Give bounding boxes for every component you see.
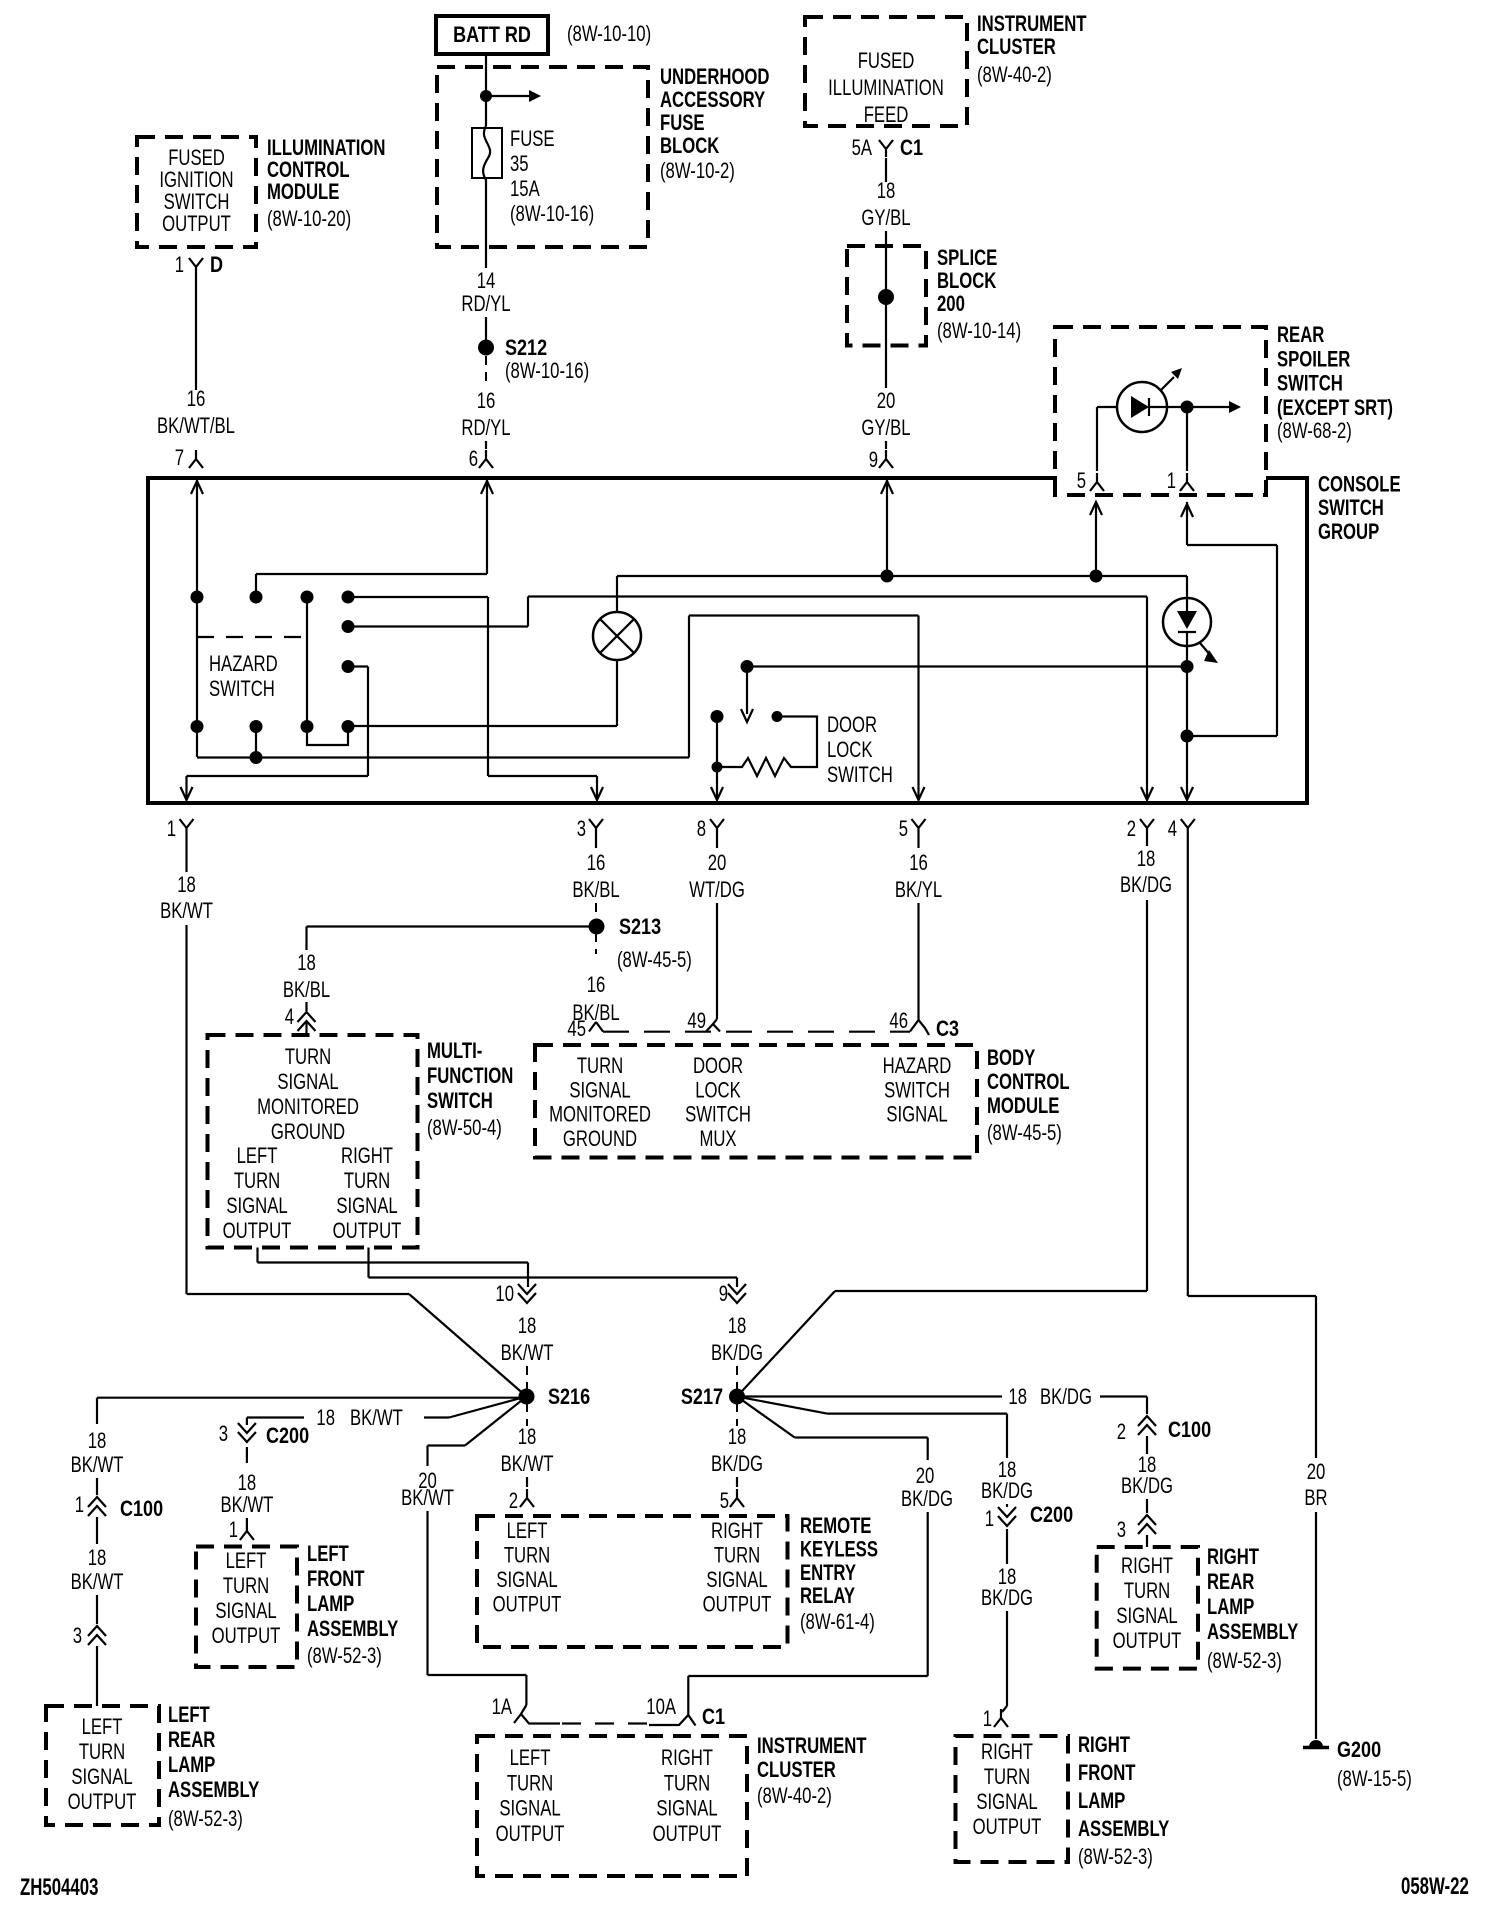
svg-text:BK/BL: BK/BL bbox=[283, 978, 330, 1003]
svg-text:16: 16 bbox=[477, 389, 496, 414]
svg-text:TURN: TURN bbox=[507, 1771, 553, 1796]
svg-text:20: 20 bbox=[916, 1464, 935, 1489]
svg-text:BK/WT/BL: BK/WT/BL bbox=[157, 414, 235, 439]
svg-text:ASSEMBLY: ASSEMBLY bbox=[307, 1617, 398, 1642]
svg-text:OUTPUT: OUTPUT bbox=[68, 1790, 137, 1815]
svg-text:18: 18 bbox=[518, 1425, 537, 1450]
svg-text:GY/BL: GY/BL bbox=[861, 206, 910, 231]
svg-text:18: 18 bbox=[88, 1429, 107, 1454]
svg-text:LOCK: LOCK bbox=[827, 738, 872, 763]
svg-text:GROUND: GROUND bbox=[271, 1120, 345, 1145]
svg-text:DOOR: DOOR bbox=[693, 1054, 743, 1079]
svg-text:4: 4 bbox=[285, 1005, 294, 1030]
svg-text:KEYLESS: KEYLESS bbox=[800, 1537, 878, 1562]
svg-text:(8W-10-10): (8W-10-10) bbox=[567, 22, 651, 47]
svg-text:BLOCK: BLOCK bbox=[937, 269, 996, 294]
svg-text:15A: 15A bbox=[510, 177, 540, 202]
svg-text:SWITCH: SWITCH bbox=[827, 763, 893, 788]
svg-text:BK/WT: BK/WT bbox=[401, 1486, 454, 1511]
svg-text:BK/DG: BK/DG bbox=[901, 1487, 953, 1512]
svg-text:2: 2 bbox=[1127, 817, 1136, 842]
svg-text:FRONT: FRONT bbox=[1078, 1761, 1136, 1786]
svg-text:TURN: TURN bbox=[285, 1045, 331, 1070]
svg-text:MULTI-: MULTI- bbox=[427, 1039, 482, 1064]
svg-text:18: 18 bbox=[297, 951, 316, 976]
svg-text:1: 1 bbox=[985, 1507, 994, 1532]
svg-text:5A: 5A bbox=[852, 136, 872, 161]
svg-text:TURN: TURN bbox=[577, 1054, 623, 1079]
svg-text:9: 9 bbox=[719, 1282, 728, 1307]
svg-text:LAMP: LAMP bbox=[168, 1753, 215, 1778]
svg-text:ACCESSORY: ACCESSORY bbox=[660, 88, 765, 113]
svg-text:OUTPUT: OUTPUT bbox=[223, 1219, 292, 1244]
svg-text:SIGNAL: SIGNAL bbox=[886, 1102, 947, 1127]
svg-text:RD/YL: RD/YL bbox=[461, 292, 510, 317]
svg-text:ASSEMBLY: ASSEMBLY bbox=[168, 1778, 259, 1803]
svg-text:LEFT: LEFT bbox=[507, 1519, 548, 1544]
svg-text:(8W-15-5): (8W-15-5) bbox=[1337, 1767, 1412, 1792]
svg-text:REAR: REAR bbox=[1277, 323, 1324, 348]
svg-text:SIGNAL: SIGNAL bbox=[976, 1790, 1037, 1815]
svg-text:SWITCH: SWITCH bbox=[685, 1102, 751, 1127]
svg-text:18: 18 bbox=[877, 179, 896, 204]
svg-text:CLUSTER: CLUSTER bbox=[757, 1758, 836, 1783]
svg-text:9: 9 bbox=[869, 448, 878, 473]
svg-text:SIGNAL: SIGNAL bbox=[71, 1765, 132, 1790]
svg-text:OUTPUT: OUTPUT bbox=[1113, 1629, 1182, 1654]
svg-text:REMOTE: REMOTE bbox=[800, 1514, 871, 1539]
svg-text:BK/WT: BK/WT bbox=[71, 1453, 124, 1478]
svg-text:OUTPUT: OUTPUT bbox=[493, 1592, 562, 1617]
svg-text:BR: BR bbox=[1304, 1486, 1327, 1511]
svg-text:18: 18 bbox=[177, 873, 196, 898]
svg-text:C1: C1 bbox=[900, 136, 923, 160]
svg-text:20: 20 bbox=[1307, 1460, 1326, 1485]
svg-text:SIGNAL: SIGNAL bbox=[277, 1070, 338, 1095]
svg-text:FEED: FEED bbox=[864, 103, 909, 128]
svg-text:OUTPUT: OUTPUT bbox=[162, 212, 231, 237]
svg-text:7: 7 bbox=[175, 446, 184, 471]
svg-text:16: 16 bbox=[587, 851, 606, 876]
svg-text:G200: G200 bbox=[1337, 1738, 1381, 1762]
svg-text:TURN: TURN bbox=[664, 1771, 710, 1796]
svg-text:INSTRUMENT: INSTRUMENT bbox=[977, 12, 1087, 37]
svg-text:HAZARD: HAZARD bbox=[209, 652, 278, 677]
svg-text:HAZARD: HAZARD bbox=[883, 1054, 952, 1079]
svg-text:BK/DG: BK/DG bbox=[711, 1341, 763, 1366]
svg-text:5: 5 bbox=[720, 1489, 729, 1514]
svg-text:MONITORED: MONITORED bbox=[549, 1102, 651, 1127]
svg-text:3: 3 bbox=[577, 817, 586, 842]
svg-text:BK/DG: BK/DG bbox=[1040, 1385, 1092, 1410]
svg-text:16: 16 bbox=[187, 387, 206, 412]
svg-text:1: 1 bbox=[229, 1518, 238, 1543]
svg-text:LEFT: LEFT bbox=[510, 1746, 551, 1771]
svg-text:(8W-10-16): (8W-10-16) bbox=[505, 359, 589, 384]
svg-text:TURN: TURN bbox=[223, 1574, 269, 1599]
svg-text:GROUP: GROUP bbox=[1318, 520, 1379, 545]
svg-text:SIGNAL: SIGNAL bbox=[656, 1796, 717, 1821]
svg-text:FUSE: FUSE bbox=[510, 127, 555, 152]
svg-text:TURN: TURN bbox=[714, 1543, 760, 1568]
svg-text:18: 18 bbox=[728, 1314, 747, 1339]
svg-text:RIGHT: RIGHT bbox=[661, 1746, 713, 1771]
svg-text:LAMP: LAMP bbox=[307, 1592, 354, 1617]
svg-text:10A: 10A bbox=[646, 1695, 676, 1720]
svg-text:REAR: REAR bbox=[1207, 1570, 1254, 1595]
svg-text:WT/DG: WT/DG bbox=[689, 878, 745, 903]
svg-text:18: 18 bbox=[728, 1425, 747, 1450]
svg-text:ASSEMBLY: ASSEMBLY bbox=[1207, 1620, 1298, 1645]
svg-text:RIGHT: RIGHT bbox=[1078, 1733, 1130, 1758]
svg-text:OUTPUT: OUTPUT bbox=[653, 1822, 722, 1847]
svg-text:TURN: TURN bbox=[344, 1169, 390, 1194]
svg-text:LAMP: LAMP bbox=[1078, 1789, 1125, 1814]
svg-text:OUTPUT: OUTPUT bbox=[212, 1624, 281, 1649]
svg-text:OUTPUT: OUTPUT bbox=[496, 1822, 565, 1847]
svg-text:C200: C200 bbox=[1030, 1503, 1073, 1527]
svg-text:14: 14 bbox=[477, 269, 496, 294]
svg-text:1: 1 bbox=[175, 253, 184, 278]
svg-text:C1: C1 bbox=[702, 1705, 725, 1729]
svg-text:RIGHT: RIGHT bbox=[711, 1519, 763, 1544]
svg-text:(8W-10-20): (8W-10-20) bbox=[267, 207, 351, 232]
svg-text:16: 16 bbox=[909, 851, 928, 876]
svg-text:3: 3 bbox=[73, 1624, 82, 1649]
svg-text:SWITCH: SWITCH bbox=[1318, 496, 1384, 521]
svg-text:2: 2 bbox=[1117, 1420, 1126, 1445]
svg-text:(8W-40-2): (8W-40-2) bbox=[757, 1784, 832, 1809]
svg-text:(8W-40-2): (8W-40-2) bbox=[977, 63, 1052, 88]
svg-text:BODY: BODY bbox=[987, 1046, 1035, 1071]
svg-text:LEFT: LEFT bbox=[226, 1549, 267, 1574]
svg-text:FUSE: FUSE bbox=[660, 111, 705, 136]
svg-text:20: 20 bbox=[877, 389, 896, 414]
svg-text:35: 35 bbox=[510, 152, 529, 177]
svg-text:BK/DG: BK/DG bbox=[711, 1452, 763, 1477]
svg-text:5: 5 bbox=[899, 817, 908, 842]
svg-text:UNDERHOOD: UNDERHOOD bbox=[660, 65, 769, 90]
svg-text:LAMP: LAMP bbox=[1207, 1595, 1254, 1620]
svg-text:OUTPUT: OUTPUT bbox=[973, 1815, 1042, 1840]
svg-text:SIGNAL: SIGNAL bbox=[336, 1194, 397, 1219]
svg-text:(8W-10-16): (8W-10-16) bbox=[510, 202, 594, 227]
svg-text:FUNCTION: FUNCTION bbox=[427, 1064, 513, 1089]
svg-text:6: 6 bbox=[469, 447, 478, 472]
svg-text:CONSOLE: CONSOLE bbox=[1318, 472, 1401, 497]
svg-text:8: 8 bbox=[697, 817, 706, 842]
svg-text:TURN: TURN bbox=[234, 1169, 280, 1194]
svg-text:GY/BL: GY/BL bbox=[861, 416, 910, 441]
svg-text:(8W-52-3): (8W-52-3) bbox=[168, 1807, 243, 1832]
svg-text:REAR: REAR bbox=[168, 1728, 215, 1753]
svg-text:45: 45 bbox=[567, 1017, 586, 1042]
svg-text:ENTRY: ENTRY bbox=[800, 1561, 856, 1586]
svg-text:SWITCH: SWITCH bbox=[427, 1089, 493, 1114]
svg-text:MUX: MUX bbox=[699, 1127, 736, 1152]
svg-text:C100: C100 bbox=[1168, 1418, 1211, 1442]
svg-text:49: 49 bbox=[687, 1009, 706, 1034]
svg-text:GROUND: GROUND bbox=[563, 1127, 637, 1152]
svg-text:TURN: TURN bbox=[504, 1543, 550, 1568]
svg-text:OUTPUT: OUTPUT bbox=[703, 1592, 772, 1617]
svg-text:TURN: TURN bbox=[79, 1740, 125, 1765]
svg-text:OUTPUT: OUTPUT bbox=[333, 1219, 402, 1244]
svg-text:18: 18 bbox=[1008, 1385, 1027, 1410]
svg-text:LEFT: LEFT bbox=[168, 1703, 210, 1728]
svg-text:18: 18 bbox=[518, 1314, 537, 1339]
svg-text:BK/WT: BK/WT bbox=[220, 1493, 273, 1518]
svg-text:(EXCEPT SRT): (EXCEPT SRT) bbox=[1277, 396, 1393, 421]
svg-text:(8W-10-14): (8W-10-14) bbox=[937, 319, 1021, 344]
svg-text:10: 10 bbox=[495, 1282, 514, 1307]
svg-text:5: 5 bbox=[1077, 469, 1086, 494]
svg-text:SIGNAL: SIGNAL bbox=[569, 1078, 630, 1103]
svg-text:SIGNAL: SIGNAL bbox=[226, 1194, 287, 1219]
svg-text:4: 4 bbox=[1168, 817, 1177, 842]
svg-text:3: 3 bbox=[219, 1422, 228, 1447]
svg-text:SIGNAL: SIGNAL bbox=[499, 1796, 560, 1821]
svg-text:S213: S213 bbox=[619, 915, 661, 939]
svg-text:RIGHT: RIGHT bbox=[1207, 1545, 1259, 1570]
svg-text:3: 3 bbox=[1117, 1518, 1126, 1543]
svg-text:S216: S216 bbox=[548, 1385, 590, 1409]
svg-text:(8W-52-3): (8W-52-3) bbox=[1207, 1649, 1282, 1674]
svg-text:LOCK: LOCK bbox=[695, 1078, 740, 1103]
svg-text:MODULE: MODULE bbox=[987, 1094, 1059, 1119]
svg-text:ASSEMBLY: ASSEMBLY bbox=[1078, 1817, 1169, 1842]
svg-text:SWITCH: SWITCH bbox=[209, 677, 275, 702]
svg-text:MODULE: MODULE bbox=[267, 180, 339, 205]
svg-text:1: 1 bbox=[1167, 469, 1176, 494]
svg-text:LEFT: LEFT bbox=[82, 1715, 123, 1740]
svg-text:46: 46 bbox=[889, 1009, 908, 1034]
svg-text:MONITORED: MONITORED bbox=[257, 1095, 359, 1120]
svg-text:18: 18 bbox=[316, 1406, 335, 1431]
svg-text:058W-22: 058W-22 bbox=[1401, 1873, 1469, 1900]
svg-text:BATT RD: BATT RD bbox=[453, 23, 531, 47]
svg-text:BK/DG: BK/DG bbox=[981, 1586, 1033, 1611]
svg-text:1A: 1A bbox=[492, 1695, 512, 1720]
svg-text:C100: C100 bbox=[120, 1497, 163, 1521]
svg-text:S212: S212 bbox=[505, 336, 547, 360]
svg-text:BK/WT: BK/WT bbox=[350, 1406, 403, 1431]
svg-text:(8W-52-3): (8W-52-3) bbox=[307, 1644, 382, 1669]
svg-text:C3: C3 bbox=[936, 1017, 959, 1041]
svg-text:LEFT: LEFT bbox=[307, 1542, 349, 1567]
svg-text:1: 1 bbox=[75, 1493, 84, 1518]
svg-text:LEFT: LEFT bbox=[237, 1144, 278, 1169]
svg-text:D: D bbox=[210, 253, 223, 277]
svg-text:TURN: TURN bbox=[984, 1765, 1030, 1790]
svg-text:ZH504403: ZH504403 bbox=[20, 1874, 98, 1901]
svg-text:(8W-68-2): (8W-68-2) bbox=[1277, 419, 1352, 444]
svg-text:SIGNAL: SIGNAL bbox=[1116, 1604, 1177, 1629]
svg-text:FRONT: FRONT bbox=[307, 1567, 365, 1592]
svg-text:CONTROL: CONTROL bbox=[987, 1070, 1070, 1095]
svg-text:16: 16 bbox=[587, 973, 606, 998]
svg-text:18: 18 bbox=[1137, 847, 1156, 872]
svg-text:DOOR: DOOR bbox=[827, 713, 877, 738]
svg-text:BLOCK: BLOCK bbox=[660, 134, 719, 159]
svg-text:200: 200 bbox=[937, 292, 965, 317]
svg-text:(8W-45-5): (8W-45-5) bbox=[617, 948, 692, 973]
svg-text:ILLUMINATION: ILLUMINATION bbox=[828, 76, 944, 101]
svg-text:SWITCH: SWITCH bbox=[884, 1078, 950, 1103]
svg-text:S217: S217 bbox=[681, 1385, 723, 1409]
svg-text:CLUSTER: CLUSTER bbox=[977, 35, 1056, 60]
svg-text:C200: C200 bbox=[266, 1424, 309, 1448]
svg-text:SPLICE: SPLICE bbox=[937, 246, 997, 271]
svg-text:20: 20 bbox=[708, 851, 727, 876]
svg-text:BK/DG: BK/DG bbox=[1121, 1474, 1173, 1499]
svg-text:(8W-50-4): (8W-50-4) bbox=[427, 1116, 502, 1141]
svg-text:SIGNAL: SIGNAL bbox=[215, 1599, 276, 1624]
svg-text:RIGHT: RIGHT bbox=[1121, 1554, 1173, 1579]
svg-text:FUSED: FUSED bbox=[858, 49, 915, 74]
svg-text:SIGNAL: SIGNAL bbox=[496, 1568, 557, 1593]
svg-text:BK/BL: BK/BL bbox=[572, 878, 619, 903]
svg-text:1: 1 bbox=[983, 1707, 992, 1732]
svg-text:SPOILER: SPOILER bbox=[1277, 347, 1350, 372]
svg-text:(8W-61-4): (8W-61-4) bbox=[800, 1610, 875, 1635]
svg-text:(8W-10-2): (8W-10-2) bbox=[660, 159, 735, 184]
svg-text:BK/WT: BK/WT bbox=[160, 899, 213, 924]
svg-text:BK/YL: BK/YL bbox=[895, 878, 942, 903]
svg-text:BK/WT: BK/WT bbox=[501, 1452, 554, 1477]
svg-text:BK/DG: BK/DG bbox=[1120, 873, 1172, 898]
svg-text:RELAY: RELAY bbox=[800, 1584, 855, 1609]
svg-text:BK/DG: BK/DG bbox=[981, 1479, 1033, 1504]
svg-text:INSTRUMENT: INSTRUMENT bbox=[757, 1734, 867, 1759]
svg-text:18: 18 bbox=[88, 1546, 107, 1571]
svg-text:(8W-45-5): (8W-45-5) bbox=[987, 1121, 1062, 1146]
svg-text:TURN: TURN bbox=[1124, 1579, 1170, 1604]
svg-text:BK/WT: BK/WT bbox=[501, 1341, 554, 1366]
svg-text:1: 1 bbox=[167, 817, 176, 842]
svg-text:RIGHT: RIGHT bbox=[341, 1144, 393, 1169]
svg-text:RD/YL: RD/YL bbox=[461, 416, 510, 441]
svg-text:RIGHT: RIGHT bbox=[981, 1740, 1033, 1765]
svg-text:SIGNAL: SIGNAL bbox=[706, 1568, 767, 1593]
svg-text:SWITCH: SWITCH bbox=[1277, 371, 1343, 396]
svg-text:BK/WT: BK/WT bbox=[71, 1570, 124, 1595]
svg-text:2: 2 bbox=[509, 1489, 518, 1514]
svg-text:(8W-52-3): (8W-52-3) bbox=[1078, 1845, 1153, 1870]
